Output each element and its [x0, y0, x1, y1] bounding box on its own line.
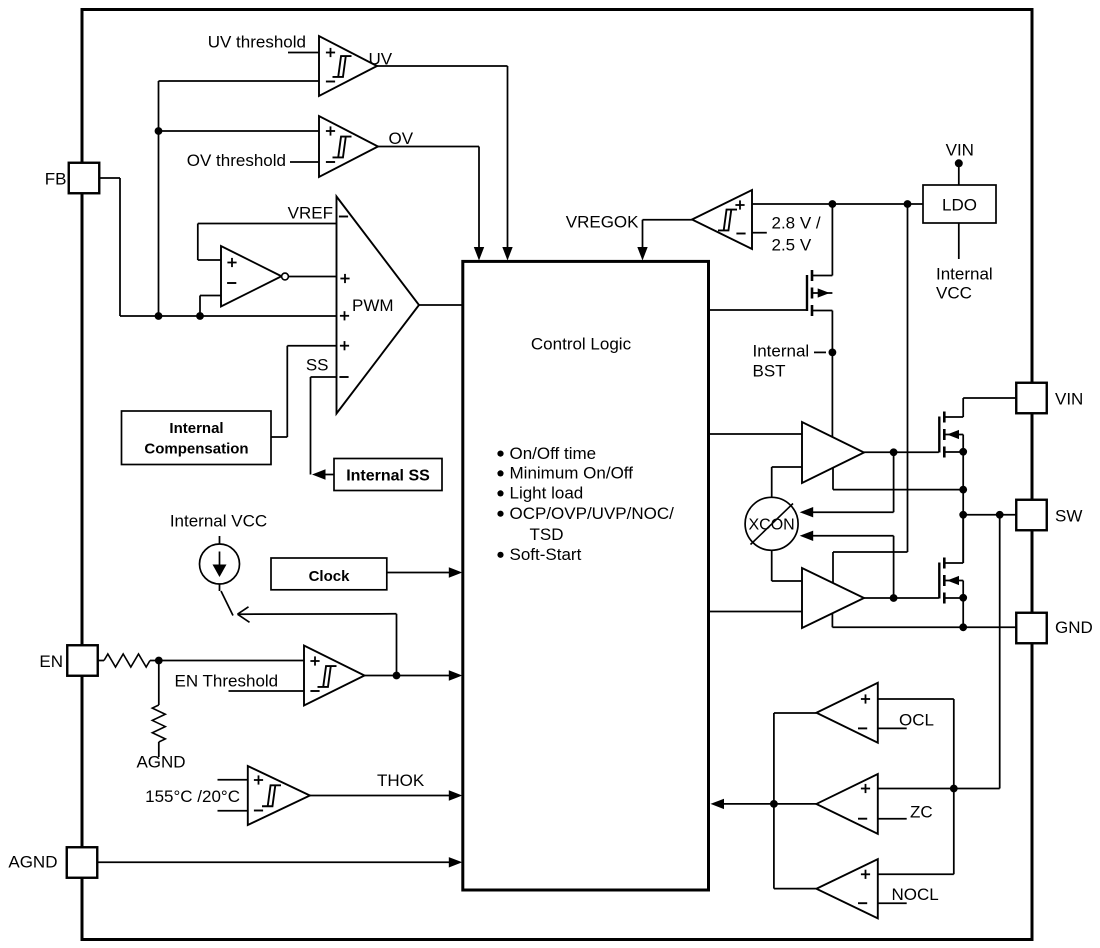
wire control logic to LS driver — [709, 611, 803, 613]
wire BST switch drain to VCC rail — [831, 204, 833, 276]
svg-text:NOCL: NOCL — [892, 885, 939, 904]
wire EN threshold stub — [229, 690, 305, 692]
wire OV threshold stub — [290, 161, 319, 163]
svg-text:Internal VCC: Internal VCC — [170, 512, 267, 531]
node SW-BST rail — [959, 486, 967, 494]
comparator OV — [319, 116, 378, 177]
transistor Q3 (low side FET) — [938, 563, 940, 599]
box Clock — [271, 558, 387, 590]
svg-text:GND: GND — [1055, 618, 1093, 637]
wire FB pin to FB net — [100, 177, 121, 179]
svg-text:OCP/OVP/UVP/NOC/: OCP/OVP/UVP/NOC/ — [510, 504, 675, 523]
transistor Q2 (high side FET) — [938, 417, 940, 453]
wire NOCL minus stub — [878, 902, 907, 904]
wire SW to pin — [963, 514, 1016, 516]
wire HS FET drain to VIN — [962, 398, 964, 417]
node LS gate junction — [890, 594, 898, 602]
node LS FET source — [959, 594, 967, 602]
op-amp buffer — [221, 246, 282, 307]
wire clock to control logic — [387, 572, 450, 574]
comparator EN — [304, 646, 365, 706]
svg-text:VREF: VREF — [288, 204, 333, 223]
wire EN comparator output — [365, 675, 451, 677]
wire PWM output — [419, 304, 463, 306]
wire compensation to PWM — [271, 436, 287, 438]
svg-text:ZC: ZC — [910, 803, 933, 822]
wire buffer output — [288, 276, 336, 278]
wire SS input — [311, 376, 337, 378]
svg-text:OV: OV — [389, 129, 414, 148]
wire buffer minus feedback — [199, 296, 201, 317]
node SW sense tap — [996, 511, 1004, 519]
svg-text:XCON: XCON — [748, 517, 794, 534]
svg-text:Light load: Light load — [510, 484, 584, 503]
wire Internal BST label dash — [814, 351, 826, 353]
svg-text:VIN: VIN — [946, 141, 974, 160]
comparator THOK (thermal) — [248, 766, 310, 825]
block Control Logic — [463, 261, 709, 890]
wire SW sense to comparator bus — [999, 515, 1001, 789]
wire switch control from EN — [238, 607, 249, 614]
wire BST switch source / Internal BST rail — [831, 311, 833, 438]
svg-text:VREGOK: VREGOK — [566, 213, 639, 232]
svg-text:VIN: VIN — [1055, 390, 1083, 409]
wire UV threshold stub — [288, 52, 319, 54]
pin EN — [67, 645, 98, 676]
amplifier HS driver — [802, 422, 864, 483]
comparator NOCL — [816, 859, 877, 918]
node Internal BST — [829, 349, 837, 357]
wire AGND to control logic — [98, 861, 450, 863]
svg-text:AGND: AGND — [136, 753, 185, 772]
svg-text:Internal: Internal — [169, 420, 223, 437]
resistor R1 (EN series) — [98, 660, 104, 662]
wire EN to comparator — [159, 660, 304, 662]
wire comparator plus bus — [953, 699, 955, 874]
wire XCON lower arrow from LS gate — [800, 531, 814, 541]
node FB junction 2 — [196, 312, 204, 320]
svg-text:AGND: AGND — [8, 853, 57, 872]
wire thermal minus stub — [218, 810, 248, 812]
comparator PWM — [337, 197, 420, 414]
svg-text:EN: EN — [39, 652, 63, 671]
wire XCON to HS driver — [771, 467, 773, 497]
svg-text:2.8 V /: 2.8 V / — [772, 214, 821, 233]
svg-text:OCL: OCL — [899, 711, 934, 730]
svg-text:Compensation: Compensation — [144, 441, 248, 458]
resistor R2 (EN to AGND) — [158, 661, 160, 706]
comparator VREGOK — [692, 190, 752, 249]
wire LDO to internal VCC label — [958, 223, 960, 259]
svg-text:SS: SS — [306, 356, 329, 375]
svg-text:TSD: TSD — [530, 525, 564, 544]
node HS gate junction — [890, 448, 898, 456]
svg-text:2.5 V: 2.5 V — [772, 236, 812, 255]
pin AGND — [67, 847, 98, 878]
transistor Q1 (BST switch) — [806, 275, 808, 311]
block XCON — [745, 497, 798, 550]
wire 2.8V reference stub — [752, 232, 767, 234]
wire LS FET source to GND rail — [962, 598, 964, 628]
wire THOK output — [310, 795, 450, 797]
svg-text:SW: SW — [1055, 507, 1082, 526]
wire FB riser to UV/OV — [158, 81, 160, 316]
wire OV output — [378, 146, 479, 148]
svg-text:Soft-Start: Soft-Start — [510, 545, 582, 564]
wire control logic to BST switch gate — [709, 309, 808, 311]
wire LS FET body to source — [962, 581, 964, 598]
svg-text:OV threshold: OV threshold — [187, 151, 286, 170]
svg-text:BST: BST — [753, 362, 786, 381]
wire OV plus input — [159, 130, 320, 132]
wire VREGOK plus to LDO — [752, 203, 923, 205]
pin VIN — [1016, 383, 1047, 414]
label control logic bullets — [497, 451, 503, 457]
svg-text:THOK: THOK — [377, 771, 425, 790]
svg-text:PWM: PWM — [352, 296, 394, 315]
svg-text:EN Threshold: EN Threshold — [175, 672, 279, 691]
box Internal Compensation — [122, 411, 272, 465]
node HS FET source — [959, 448, 967, 456]
wire internal VCC rail to LS driver top — [907, 204, 909, 552]
node SW pin tap — [959, 511, 967, 519]
node FB junction 1 — [155, 312, 163, 320]
node ZC bus junction — [950, 785, 958, 793]
wire LS FET drain to SW — [962, 515, 964, 563]
wire HS FET body to source — [962, 435, 964, 452]
wire OCL plus input — [878, 698, 954, 700]
wire GND rail — [832, 626, 1016, 628]
wire XCON to LS driver — [771, 550, 773, 581]
node EN divider — [155, 657, 163, 665]
node VIN stub — [955, 159, 963, 167]
wire comparator bus to control logic — [723, 803, 774, 805]
node comparator output junction — [770, 800, 778, 808]
wire HS driver bottom rail to SW — [832, 468, 834, 490]
comparator ZC — [816, 774, 877, 834]
svg-text:Clock: Clock — [309, 568, 351, 585]
wire SW net vertical — [962, 452, 964, 563]
node EN output junction — [393, 672, 401, 680]
wire Internal SS to SS net — [324, 474, 334, 476]
wire thermal plus stub — [218, 779, 248, 781]
node internal VCC rail tap — [904, 200, 912, 208]
svg-text:Internal SS: Internal SS — [346, 468, 430, 485]
svg-text:FB: FB — [45, 170, 67, 189]
wire VREGOK output — [643, 219, 693, 221]
comparator OCL — [816, 683, 877, 743]
wire ZC plus input — [878, 788, 1000, 790]
switch S1 — [219, 584, 221, 592]
amplifier LS driver — [802, 568, 864, 628]
box Internal SS — [334, 459, 442, 491]
svg-text:On/Off time: On/Off time — [510, 444, 597, 463]
wire OCL minus stub — [878, 727, 907, 729]
wire UV minus input — [159, 80, 320, 82]
svg-text:Minimum On/Off: Minimum On/Off — [510, 464, 634, 483]
svg-text:Internal: Internal — [936, 265, 993, 284]
svg-text:Internal: Internal — [753, 342, 810, 361]
comparator UV — [319, 36, 377, 96]
node BST rail tap — [829, 200, 837, 208]
wire UV output — [377, 65, 508, 67]
wire LS driver bottom to GND rail — [831, 613, 833, 627]
wire control logic to HS driver — [709, 433, 803, 435]
wire VIN to LDO — [958, 163, 960, 185]
current source I1 — [219, 536, 221, 544]
wire VREF line — [198, 223, 337, 225]
svg-text:VCC: VCC — [936, 284, 972, 303]
wire LS driver output to gate — [864, 597, 939, 599]
svg-text:UV threshold: UV threshold — [208, 33, 306, 52]
pin FB — [69, 163, 100, 194]
svg-text:155°C /20°C: 155°C /20°C — [145, 787, 240, 806]
wire VREF to buffer plus — [197, 224, 199, 261]
block LDO — [923, 185, 996, 223]
pin SW — [1016, 500, 1047, 531]
pin GND — [1016, 613, 1047, 644]
wire HS driver output to gate — [864, 451, 939, 453]
node GND rail junction — [959, 623, 967, 631]
svg-text:Control Logic: Control Logic — [531, 335, 632, 354]
svg-text:LDO: LDO — [942, 196, 977, 215]
wire NOCL plus input — [878, 873, 954, 875]
wire ZC minus stub — [878, 818, 907, 820]
wire comparator output bus — [773, 713, 775, 889]
wire HS gate junction to XCON upper arrow — [893, 452, 895, 512]
node OV tap — [155, 127, 163, 135]
